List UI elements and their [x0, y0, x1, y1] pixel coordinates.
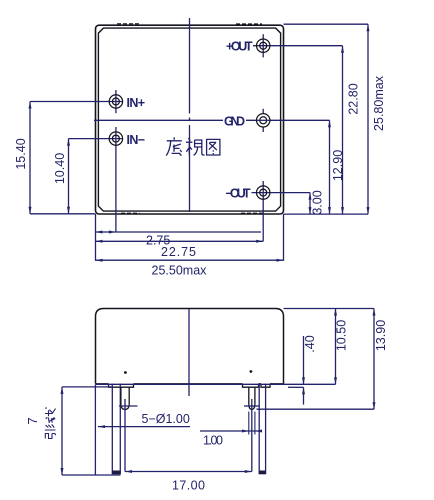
label lead-length (Chinese, rotated) [45, 408, 56, 438]
pin right tip tick [244, 405, 260, 407]
pin -OUT leader [252, 192, 311, 194]
standoff bottom extension [288, 386, 304, 388]
bottom edge extension left [30, 213, 96, 215]
standoff left [109, 384, 134, 387]
pin -OUT [257, 186, 270, 199]
svg-text:1.00: 1.00 [203, 434, 223, 448]
pin IN- [109, 132, 122, 145]
dim 15.40 arrows [29, 102, 32, 109]
svg-text:GND: GND [224, 114, 245, 128]
svg-text:13.90: 13.90 [374, 320, 388, 351]
dim 13.90 line [373, 309, 375, 410]
svg-text:17.00: 17.00 [172, 479, 205, 493]
pin IN- leader [69, 138, 123, 140]
pin +OUT leader [253, 45, 343, 47]
dot marker left [124, 371, 127, 374]
pin -OUT extension down [262, 181, 264, 241]
pin GND [257, 114, 270, 127]
dim 22.80 line [342, 46, 344, 214]
GND crosshair [257, 119, 270, 121]
pin IN+ [109, 95, 122, 108]
lead pin front-right (full length) [258, 384, 260, 475]
svg-text:.40: .40 [303, 335, 317, 352]
svg-text:IN+: IN+ [127, 96, 146, 110]
extension right edge down [283, 214, 285, 261]
dim 2.75 arrows [96, 231, 103, 234]
char xian [46, 417, 56, 427]
standoff right 2 [261, 384, 270, 387]
dim 22.75 arrows [96, 240, 103, 243]
bottom edge extension right [284, 213, 369, 215]
pin GND leader [94, 119, 330, 121]
pin GND centerline [262, 109, 264, 132]
svg-text:10.50: 10.50 [335, 320, 349, 351]
pin right short (broken) [249, 387, 255, 409]
pin right centerline [251, 399, 253, 472]
pin left short (broken) [121, 387, 129, 409]
svg-text:IN−: IN− [127, 133, 146, 147]
package outline outer [96, 25, 284, 214]
dim 10.40 arrows [67, 139, 70, 146]
hidden dashed edge top left [117, 23, 139, 25]
char chang [45, 408, 56, 416]
dim 3.00 line [309, 193, 311, 215]
dim 1.00 line [200, 430, 261, 432]
dim 10.50 line [335, 309, 337, 385]
dim .40 lower line [303, 387, 305, 404]
label GND [223, 113, 246, 127]
hidden dashed edge top right [236, 23, 262, 25]
svg-text:+OUT: +OUT [226, 40, 253, 54]
body bottom edge segments [96, 383, 284, 385]
lead length dim box bottom [62, 474, 121, 476]
svg-text:7: 7 [25, 417, 40, 424]
pin IN+ centerline [115, 90, 117, 113]
dim .40 upper line [303, 336, 305, 384]
pin left centerline [124, 399, 126, 472]
pin +OUT centerline [262, 34, 264, 57]
extension body left edge down [94, 384, 96, 475]
dim 22.75 line [96, 240, 264, 242]
extension left edge down [95, 214, 97, 261]
svg-text:25.80max: 25.80max [372, 75, 386, 131]
side view centerline [188, 309, 190, 396]
top edge extension right [284, 23, 369, 25]
pin IN- extension down [115, 127, 117, 232]
top edge extension right (side view) [284, 308, 375, 310]
leader 5-dia1.00 [98, 426, 190, 428]
svg-text:22.75: 22.75 [161, 245, 196, 259]
lead pin front-left (full length) [111, 384, 113, 475]
svg-text:22.80: 22.80 [347, 83, 361, 114]
pin left tip tick [119, 405, 138, 407]
char yin [45, 430, 56, 439]
package outline inner [98, 28, 280, 211]
char tu [207, 139, 220, 155]
dim 1.00 extension lines [248, 412, 250, 435]
lead length dim line [61, 387, 63, 475]
label bottom-view (Chinese) [166, 137, 220, 155]
pin tip extension to 13.90 [257, 408, 375, 410]
pin IN+ leader [30, 101, 123, 103]
dim 12.90 line [329, 120, 331, 214]
body outline [96, 309, 284, 384]
char shi [186, 138, 205, 155]
svg-text:10.40: 10.40 [53, 153, 67, 184]
dim 25.80max line [367, 24, 369, 214]
dim 25.50max arrows [96, 259, 103, 262]
svg-text:3.00: 3.00 [311, 190, 325, 214]
dim 25.50max line [96, 259, 284, 261]
dim 2.75 line [96, 231, 262, 233]
pin +OUT [257, 39, 270, 52]
dim 10.40 line [68, 139, 70, 214]
dot marker right [250, 370, 253, 373]
svg-text:5−Ø1.00: 5−Ø1.00 [142, 412, 190, 426]
vertical centerline [189, 18, 191, 212]
svg-text:−OUT: −OUT [226, 187, 251, 201]
hidden dashed edge bottom right [241, 212, 263, 214]
standoff right 1 [243, 384, 259, 387]
svg-text:15.40: 15.40 [14, 138, 28, 169]
base reference line [95, 383, 335, 385]
hidden dashed edge bottom left [121, 212, 140, 214]
char di [166, 137, 182, 155]
dim 17.00 line [125, 471, 252, 473]
svg-text:25.50max: 25.50max [152, 264, 208, 278]
lead length dim box top [62, 386, 112, 388]
dim 15.40 line [29, 102, 31, 214]
